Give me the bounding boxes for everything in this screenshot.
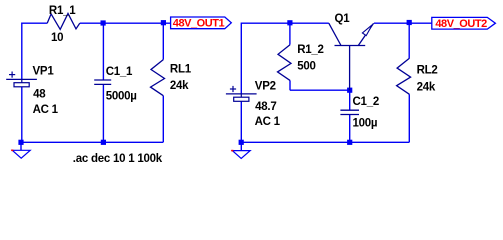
svg-text:R1_1: R1_1 [49,5,76,17]
svg-text:R1_2: R1_2 [297,44,324,56]
svg-text:VP1: VP1 [33,66,55,78]
svg-text:24k: 24k [170,80,189,92]
svg-text:5000µ: 5000µ [106,91,137,103]
svg-text:24k: 24k [417,82,436,94]
svg-text:.ac dec 10 1 100k: .ac dec 10 1 100k [73,153,163,165]
svg-text:Q1: Q1 [335,13,351,25]
svg-text:48V_OUT1: 48V_OUT1 [173,18,225,30]
svg-text:RL2: RL2 [417,65,438,77]
svg-text:AC 1: AC 1 [33,104,59,116]
svg-text:48: 48 [33,89,46,101]
svg-text:48.7: 48.7 [255,101,276,113]
svg-text:10: 10 [51,32,63,44]
svg-text:C1_2: C1_2 [353,96,380,108]
svg-text:48V_OUT2: 48V_OUT2 [435,18,487,30]
svg-text:C1_1: C1_1 [106,66,133,78]
svg-text:AC 1: AC 1 [255,116,281,128]
svg-text:RL1: RL1 [170,64,192,76]
svg-text:500: 500 [297,60,315,72]
svg-text:100µ: 100µ [353,117,378,129]
svg-text:VP2: VP2 [255,80,276,92]
